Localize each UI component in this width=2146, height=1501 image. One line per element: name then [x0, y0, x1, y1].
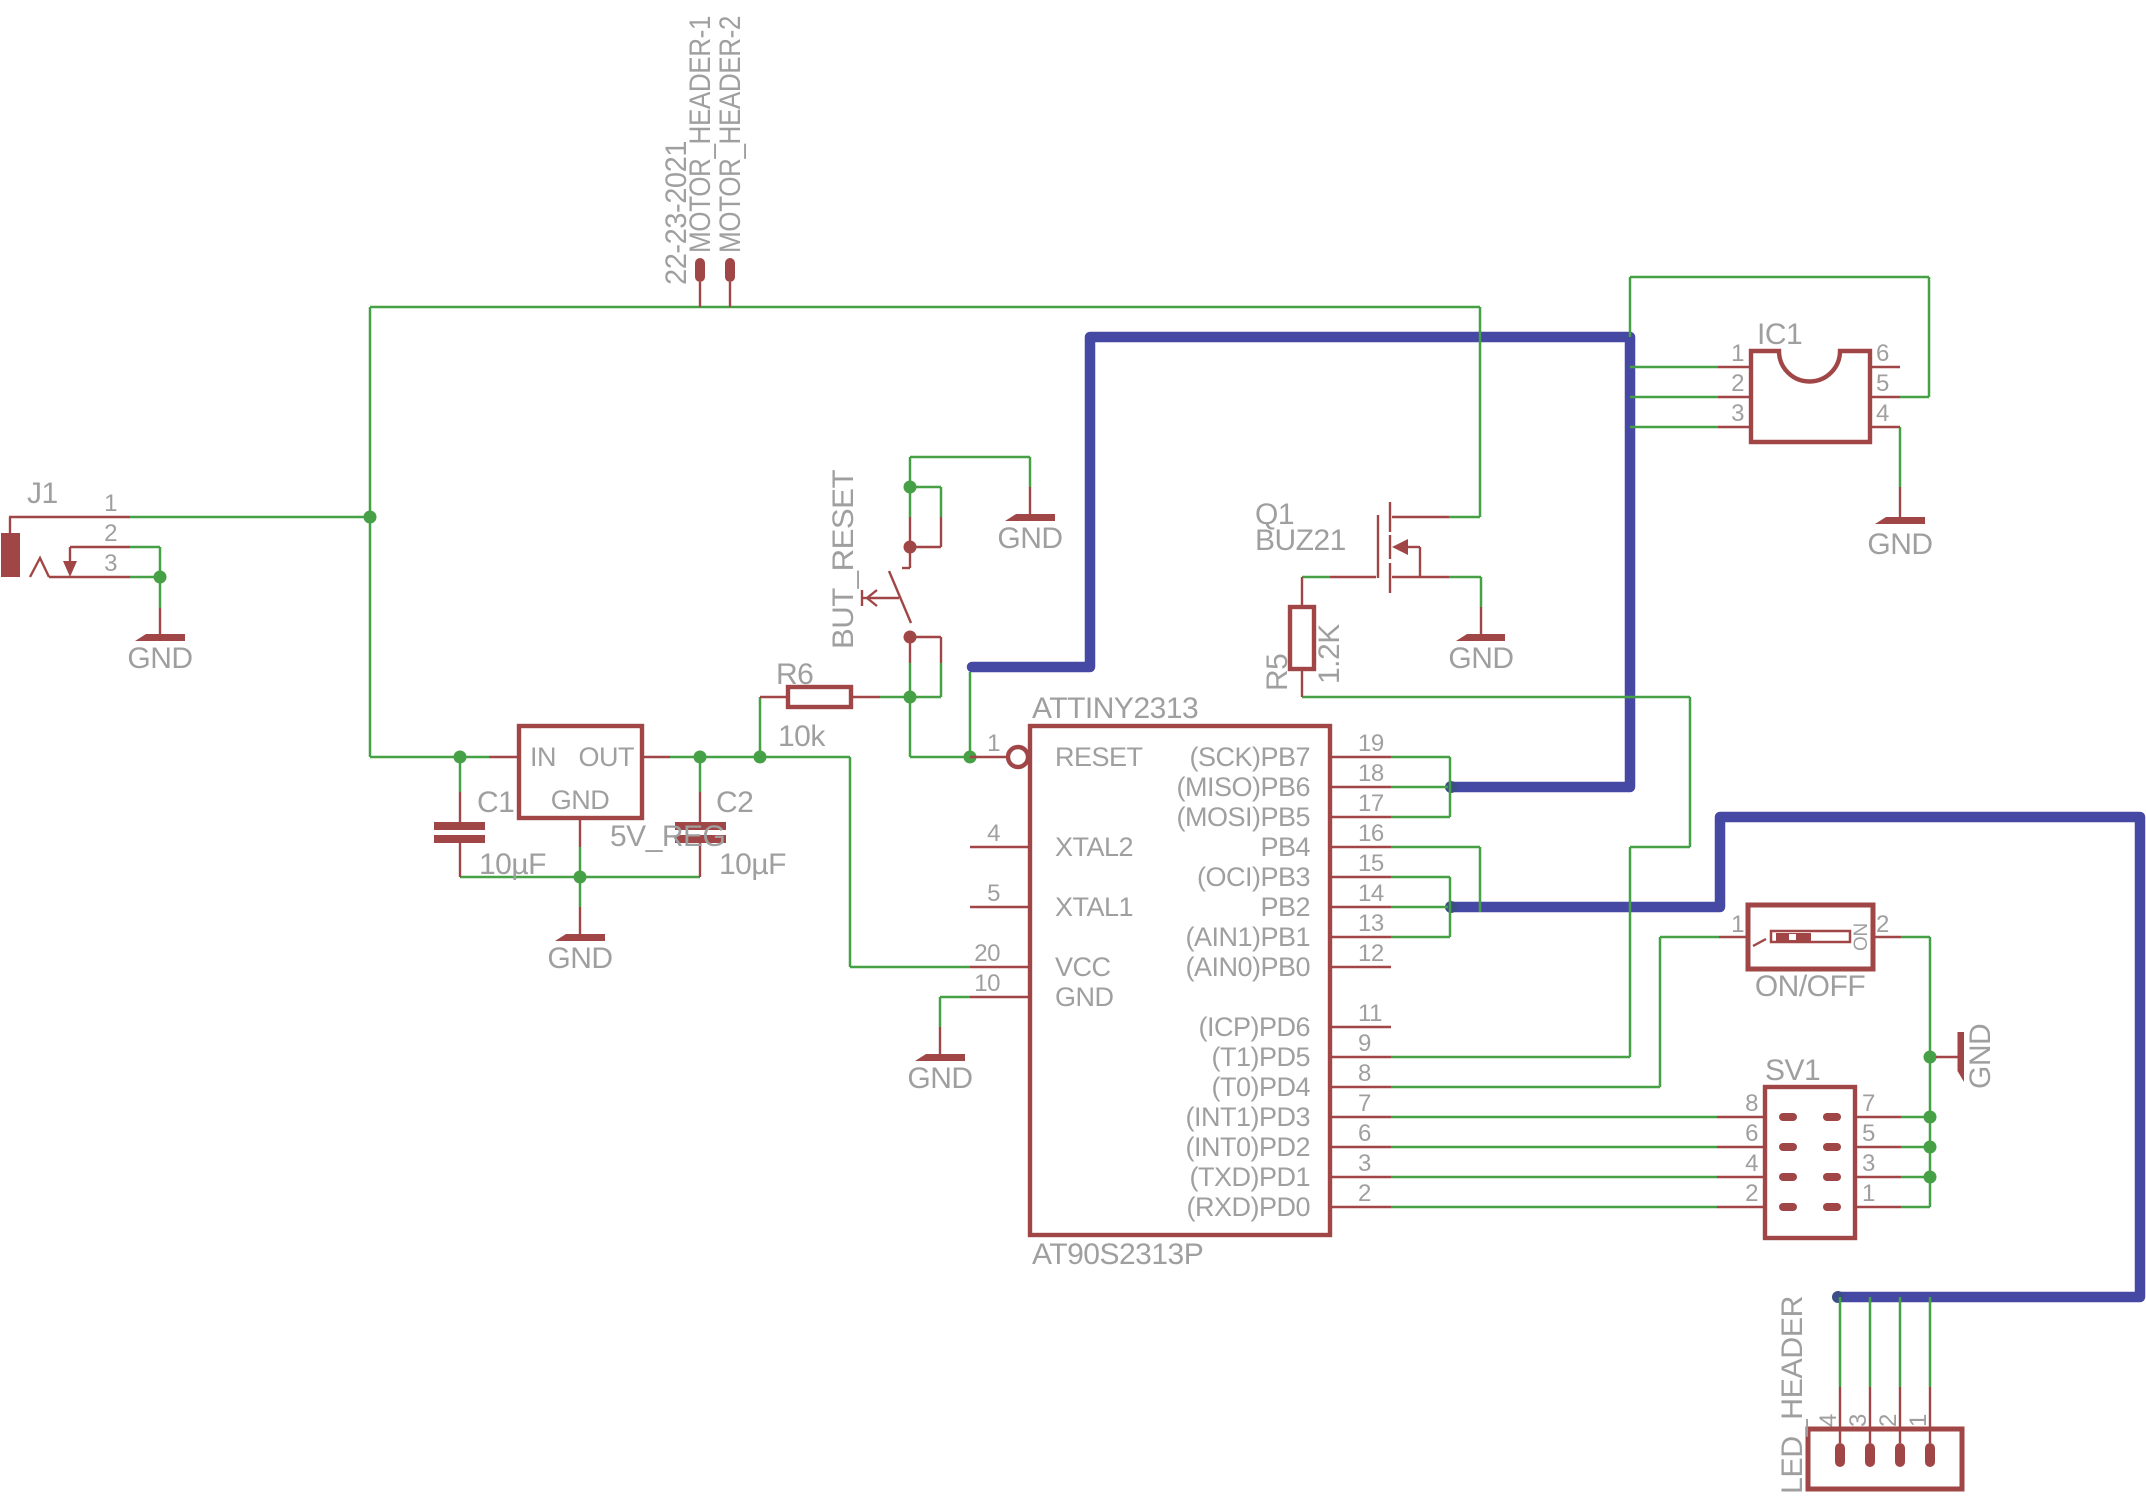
svg-text:10: 10 [974, 970, 1000, 997]
svg-text:PB2: PB2 [1260, 892, 1310, 922]
svg-text:13: 13 [1358, 910, 1384, 937]
svg-text:GND: GND [907, 1062, 972, 1095]
svg-text:16: 16 [1358, 820, 1384, 847]
svg-text:1: 1 [104, 490, 117, 517]
svg-text:(AIN0)PB0: (AIN0)PB0 [1185, 952, 1310, 982]
svg-text:10µF: 10µF [479, 848, 546, 881]
svg-text:LED_HEADER: LED_HEADER [1776, 1296, 1809, 1494]
svg-text:SV1: SV1 [1765, 1054, 1820, 1087]
svg-text:R6: R6 [776, 658, 813, 691]
svg-text:15: 15 [1358, 850, 1384, 877]
svg-text:1: 1 [1862, 1180, 1875, 1207]
svg-text:5V_REG: 5V_REG [610, 820, 725, 853]
svg-text:1: 1 [1905, 1414, 1932, 1427]
svg-text:MOTOR_HEADER-1: MOTOR_HEADER-1 [684, 16, 717, 253]
svg-text:2: 2 [1876, 911, 1889, 938]
svg-text:IC1: IC1 [1757, 318, 1802, 351]
svg-text:14: 14 [1358, 880, 1384, 907]
svg-text:IN: IN [530, 742, 556, 772]
svg-text:1: 1 [1731, 340, 1744, 367]
svg-text:8: 8 [1745, 1090, 1758, 1117]
svg-text:10k: 10k [778, 720, 826, 753]
svg-text:5: 5 [987, 880, 1000, 907]
svg-text:GND: GND [551, 785, 610, 815]
svg-text:(OCI)PB3: (OCI)PB3 [1197, 862, 1310, 892]
svg-text:12: 12 [1358, 940, 1384, 967]
svg-text:(INT1)PD3: (INT1)PD3 [1185, 1102, 1310, 1132]
svg-text:2: 2 [1731, 370, 1744, 397]
svg-text:VCC: VCC [1055, 952, 1111, 982]
svg-text:2: 2 [104, 520, 117, 547]
svg-text:6: 6 [1745, 1120, 1758, 1147]
svg-text:C2: C2 [716, 786, 753, 819]
svg-text:OUT: OUT [579, 742, 635, 772]
svg-text:1.2K: 1.2K [1313, 624, 1346, 684]
svg-text:4: 4 [1815, 1414, 1842, 1427]
svg-text:19: 19 [1358, 730, 1384, 757]
svg-text:GND: GND [1448, 642, 1513, 675]
svg-text:R5: R5 [1261, 654, 1294, 691]
svg-text:GND: GND [547, 942, 612, 975]
svg-text:(MOSI)PB5: (MOSI)PB5 [1176, 802, 1310, 832]
svg-text:3: 3 [1358, 1150, 1371, 1177]
svg-text:PB4: PB4 [1260, 832, 1310, 862]
svg-text:BUT_RESET: BUT_RESET [827, 470, 860, 649]
svg-text:GND: GND [997, 522, 1062, 555]
svg-text:5: 5 [1876, 370, 1889, 397]
svg-text:9: 9 [1358, 1030, 1371, 1057]
svg-text:(T1)PD5: (T1)PD5 [1211, 1042, 1310, 1072]
svg-text:10µF: 10µF [719, 848, 786, 881]
svg-text:11: 11 [1358, 1000, 1382, 1027]
svg-text:ATTINY2313: ATTINY2313 [1032, 692, 1198, 725]
svg-text:(INT0)PD2: (INT0)PD2 [1185, 1132, 1310, 1162]
svg-text:J1: J1 [27, 477, 58, 510]
svg-text:(AIN1)PB1: (AIN1)PB1 [1185, 922, 1310, 952]
svg-text:18: 18 [1358, 760, 1384, 787]
svg-text:17: 17 [1358, 790, 1384, 817]
svg-text:6: 6 [1876, 340, 1889, 367]
svg-text:4: 4 [1745, 1150, 1758, 1177]
svg-text:ON: ON [1851, 923, 1872, 951]
svg-text:(ICP)PD6: (ICP)PD6 [1198, 1012, 1310, 1042]
svg-text:GND: GND [1867, 528, 1932, 561]
svg-text:(SCK)PB7: (SCK)PB7 [1189, 742, 1310, 772]
svg-text:(T0)PD4: (T0)PD4 [1211, 1072, 1310, 1102]
svg-text:(MISO)PB6: (MISO)PB6 [1176, 772, 1310, 802]
svg-text:1: 1 [987, 730, 1000, 757]
svg-text:RESET: RESET [1055, 742, 1143, 772]
svg-text:6: 6 [1358, 1120, 1371, 1147]
svg-text:2: 2 [1358, 1180, 1371, 1207]
svg-text:GND: GND [127, 642, 192, 675]
svg-text:GND: GND [1964, 1024, 1997, 1089]
svg-text:ON/OFF: ON/OFF [1755, 970, 1865, 1003]
svg-text:3: 3 [1862, 1150, 1875, 1177]
svg-text:4: 4 [987, 820, 1000, 847]
svg-text:3: 3 [1731, 400, 1744, 427]
svg-text:7: 7 [1358, 1090, 1371, 1117]
svg-text:BUZ21: BUZ21 [1255, 524, 1346, 557]
svg-text:AT90S2313P: AT90S2313P [1032, 1238, 1203, 1271]
svg-text:7: 7 [1862, 1090, 1875, 1117]
svg-text:4: 4 [1876, 400, 1889, 427]
svg-text:XTAL2: XTAL2 [1055, 832, 1133, 862]
svg-text:GND: GND [1055, 982, 1114, 1012]
svg-text:8: 8 [1358, 1060, 1371, 1087]
svg-text:(RXD)PD0: (RXD)PD0 [1186, 1192, 1310, 1222]
svg-text:2: 2 [1875, 1414, 1902, 1427]
svg-text:1: 1 [1731, 911, 1744, 938]
svg-text:20: 20 [974, 940, 1000, 967]
svg-text:5: 5 [1862, 1120, 1875, 1147]
svg-text:3: 3 [104, 550, 117, 577]
svg-text:3: 3 [1845, 1414, 1872, 1427]
svg-text:(TXD)PD1: (TXD)PD1 [1189, 1162, 1310, 1192]
svg-text:XTAL1: XTAL1 [1055, 892, 1133, 922]
svg-text:2: 2 [1745, 1180, 1758, 1207]
svg-text:C1: C1 [477, 786, 514, 819]
svg-text:MOTOR_HEADER-2: MOTOR_HEADER-2 [714, 16, 747, 253]
